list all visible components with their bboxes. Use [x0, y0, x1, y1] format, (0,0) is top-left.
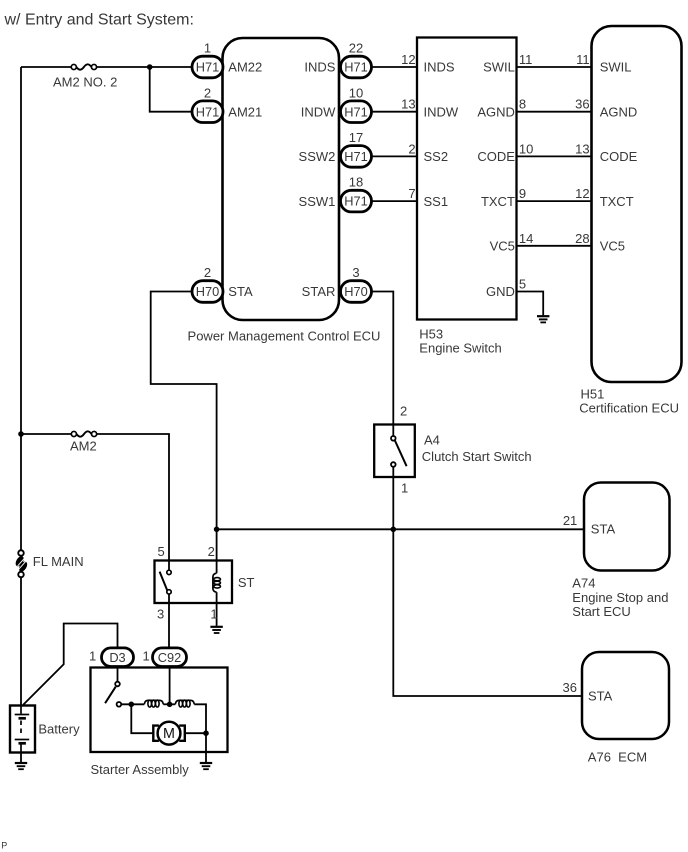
svg-text:Battery: Battery [38, 721, 80, 736]
svg-text:11: 11 [519, 52, 533, 67]
svg-text:INDW: INDW [424, 104, 459, 119]
svg-text:12: 12 [575, 186, 589, 201]
svg-text:SSW2: SSW2 [299, 149, 336, 164]
svg-text:Engine Switch: Engine Switch [419, 340, 501, 355]
svg-text:1: 1 [89, 648, 96, 663]
svg-text:INDW: INDW [301, 104, 336, 119]
svg-text:TXCT: TXCT [481, 194, 515, 209]
svg-text:AGND: AGND [477, 104, 515, 119]
svg-text:H70: H70 [344, 284, 367, 299]
svg-text:Clutch Start Switch: Clutch Start Switch [422, 449, 532, 464]
svg-text:TXCT: TXCT [600, 194, 634, 209]
svg-text:CODE: CODE [477, 149, 515, 164]
svg-text:AM21: AM21 [228, 104, 262, 119]
svg-text:A76 ECM: A76 ECM [588, 749, 647, 764]
svg-text:Start ECU: Start ECU [572, 604, 631, 619]
svg-text:H71: H71 [196, 60, 219, 75]
svg-text:H51: H51 [581, 386, 605, 401]
svg-text:13: 13 [401, 97, 415, 112]
svg-text:SS1: SS1 [424, 194, 449, 209]
svg-text:CODE: CODE [600, 149, 638, 164]
svg-text:5: 5 [158, 544, 165, 559]
svg-text:VC5: VC5 [490, 239, 515, 254]
svg-text:H71: H71 [344, 149, 367, 164]
svg-text:A74: A74 [572, 576, 595, 591]
svg-text:1: 1 [204, 41, 211, 56]
svg-text:1: 1 [401, 480, 408, 495]
svg-text:3: 3 [157, 606, 164, 621]
svg-text:14: 14 [519, 231, 533, 246]
svg-text:ST: ST [238, 575, 255, 590]
svg-text:2: 2 [204, 265, 211, 280]
svg-text:2: 2 [204, 85, 211, 100]
svg-text:22: 22 [349, 41, 363, 56]
svg-text:STA: STA [591, 522, 616, 537]
svg-text:7: 7 [408, 186, 415, 201]
svg-text:FL MAIN: FL MAIN [33, 554, 84, 569]
svg-text:2: 2 [408, 141, 415, 156]
svg-text:w/ Entry and Start System:: w/ Entry and Start System: [4, 12, 194, 29]
svg-text:2: 2 [208, 544, 215, 559]
svg-text:AM2 NO. 2: AM2 NO. 2 [53, 75, 117, 90]
svg-text:H71: H71 [344, 104, 367, 119]
svg-text:H53: H53 [419, 326, 443, 341]
svg-text:SS2: SS2 [424, 149, 449, 164]
svg-text:GND: GND [486, 284, 515, 299]
svg-text:H70: H70 [196, 284, 219, 299]
svg-text:H71: H71 [196, 104, 219, 119]
svg-text:AGND: AGND [600, 104, 638, 119]
svg-text:D3: D3 [109, 650, 125, 665]
svg-text:INDS: INDS [424, 60, 455, 75]
svg-text:21: 21 [563, 513, 577, 528]
svg-text:H71: H71 [344, 60, 367, 75]
svg-text:SSW1: SSW1 [299, 194, 336, 209]
svg-text:STA: STA [588, 689, 613, 704]
svg-text:13: 13 [575, 141, 589, 156]
svg-text:17: 17 [349, 130, 363, 145]
svg-text:STAR: STAR [302, 284, 336, 299]
svg-text:C92: C92 [158, 650, 181, 665]
svg-text:8: 8 [519, 97, 526, 112]
svg-text:Engine Stop and: Engine Stop and [572, 590, 668, 605]
svg-text:10: 10 [349, 85, 363, 100]
svg-text:SWIL: SWIL [483, 60, 515, 75]
svg-text:AM22: AM22 [228, 60, 262, 75]
svg-text:2: 2 [400, 404, 407, 419]
svg-text:10: 10 [519, 141, 533, 156]
svg-text:3: 3 [352, 265, 359, 280]
svg-text:H71: H71 [344, 194, 367, 209]
svg-text:1: 1 [143, 648, 150, 663]
svg-text:STA: STA [228, 284, 253, 299]
svg-text:18: 18 [349, 175, 363, 190]
svg-text:12: 12 [401, 52, 415, 67]
svg-text:5: 5 [519, 277, 526, 292]
svg-text:AM2: AM2 [70, 439, 97, 454]
svg-text:VC5: VC5 [600, 239, 625, 254]
svg-text:1: 1 [210, 606, 217, 621]
svg-text:Power Management Control ECU: Power Management Control ECU [188, 328, 381, 343]
svg-text:INDS: INDS [304, 60, 335, 75]
svg-text:Starter Assembly: Starter Assembly [91, 762, 190, 777]
svg-text:36: 36 [563, 680, 577, 695]
svg-text:28: 28 [575, 231, 589, 246]
svg-text:Certification ECU: Certification ECU [579, 400, 679, 415]
svg-text:9: 9 [519, 186, 526, 201]
svg-text:SWIL: SWIL [600, 60, 632, 75]
svg-text:36: 36 [575, 97, 589, 112]
svg-text:A4: A4 [424, 432, 440, 447]
svg-text:M: M [163, 726, 175, 742]
svg-text:P: P [1, 841, 7, 851]
svg-text:11: 11 [576, 52, 590, 67]
